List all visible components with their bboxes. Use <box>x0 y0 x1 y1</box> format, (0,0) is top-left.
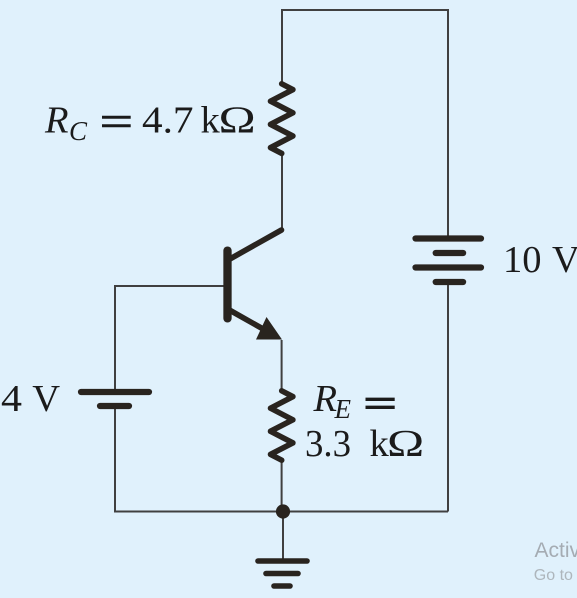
svg-text:4.7: 4.7 <box>142 100 194 142</box>
svg-text:R: R <box>313 378 338 420</box>
svg-text:R: R <box>44 100 69 142</box>
svg-text:3.3: 3.3 <box>305 423 351 465</box>
svg-text:4: 4 <box>1 378 22 420</box>
svg-text:10: 10 <box>503 239 542 281</box>
svg-text:V: V <box>32 378 60 420</box>
svg-text:V: V <box>552 239 577 281</box>
svg-text:Ω: Ω <box>387 422 424 465</box>
svg-text:k: k <box>201 100 221 142</box>
svg-text:Ω: Ω <box>219 98 256 141</box>
svg-text:Go to Settings to activate Win: Go to Settings to activate Windows. <box>534 567 577 584</box>
svg-text:C: C <box>69 116 88 146</box>
svg-text:Activate Windows: Activate Windows <box>535 539 577 562</box>
svg-text:E: E <box>334 394 352 424</box>
